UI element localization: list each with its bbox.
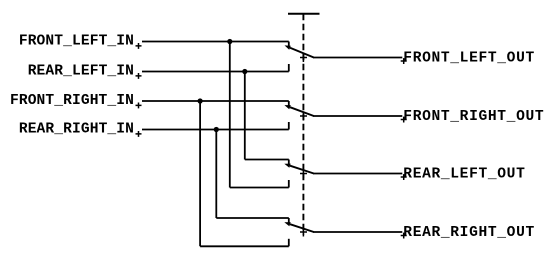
switch SW4 lever: [290, 224, 314, 232]
switch SW1 bottom contact: [288, 64, 290, 72]
switch SW3 lever arrowhead: [284, 164, 290, 168]
wire REAR_LEFT feed to SW3 top contact: [245, 159, 289, 161]
pin cross FRONT_RIGHT_IN: [136, 103, 142, 109]
junction FRONT_LEFT: [227, 39, 232, 44]
switch SW2 pivot tick: [300, 112, 307, 121]
switch SW3 bottom contact: [288, 180, 290, 188]
svg-text:REAR_RIGHT_OUT: REAR_RIGHT_OUT: [403, 225, 535, 241]
switch SW3 lever: [290, 166, 314, 174]
wire REAR_LEFT_OUT horizontal: [313, 173, 402, 175]
pin cross REAR_LEFT_OUT: [401, 174, 407, 180]
switch SW1 lever: [290, 48, 314, 58]
svg-text:FRONT_RIGHT_IN: FRONT_RIGHT_IN: [10, 93, 134, 109]
wire FRONT_LEFT vertical drop: [229, 42, 231, 188]
switch SW4 pivot tick: [300, 228, 307, 237]
switch SW1 pivot tick: [300, 53, 307, 62]
pin cross REAR_LEFT_IN: [136, 73, 142, 79]
wire FRONT_LEFT feed to SW3 bottom contact: [230, 187, 289, 189]
wire FRONT_RIGHT_IN horizontal: [142, 100, 289, 102]
wire REAR_LEFT_IN horizontal: [142, 71, 289, 73]
mechanical linkage bar (top T): [288, 13, 320, 15]
wire REAR_RIGHT vertical drop: [215, 130, 217, 219]
svg-text:REAR_LEFT_OUT: REAR_LEFT_OUT: [403, 167, 525, 183]
switch SW3 top contact: [288, 160, 290, 166]
switch SW1 lever arrowhead: [285, 45, 291, 49]
switch SW2 top contact: [288, 101, 290, 107]
svg-text:FRONT_LEFT_IN: FRONT_LEFT_IN: [19, 33, 134, 49]
junction REAR_RIGHT: [214, 127, 219, 132]
switch SW2 lever arrowhead: [284, 105, 290, 109]
svg-text:REAR_LEFT_IN: REAR_LEFT_IN: [28, 63, 134, 79]
wire REAR_LEFT vertical drop: [244, 72, 246, 160]
wire FRONT_LEFT_IN horizontal: [142, 41, 289, 43]
switch SW3 pivot tick: [300, 169, 307, 178]
wire REAR_RIGHT feed to SW4 top contact: [216, 217, 288, 219]
pin cross FRONT_LEFT_OUT: [401, 58, 407, 64]
switch SW4 top contact: [288, 218, 290, 224]
pin cross REAR_RIGHT_IN: [136, 131, 142, 137]
svg-text:FRONT_LEFT_OUT: FRONT_LEFT_OUT: [403, 51, 535, 67]
junction REAR_LEFT: [242, 69, 247, 74]
pin cross REAR_RIGHT_OUT: [401, 233, 407, 239]
mechanical linkage dashed line: [302, 14, 304, 235]
junction FRONT_RIGHT: [198, 98, 203, 103]
switch SW4 lever arrowhead: [284, 222, 290, 226]
switch SW2 bottom contact: [288, 122, 290, 130]
wire REAR_RIGHT_OUT horizontal: [313, 231, 402, 233]
wire FRONT_RIGHT feed to SW4 bottom contact: [200, 245, 289, 247]
switch SW2 lever: [290, 107, 314, 116]
switch SW4 bottom contact: [288, 239, 290, 247]
wire FRONT_RIGHT vertical drop: [199, 101, 201, 246]
wire FRONT_LEFT_OUT horizontal: [313, 57, 402, 59]
svg-text:FRONT_RIGHT_OUT: FRONT_RIGHT_OUT: [403, 109, 544, 125]
pin cross FRONT_RIGHT_OUT: [401, 117, 407, 123]
svg-text:REAR_RIGHT_IN: REAR_RIGHT_IN: [19, 121, 134, 137]
pin cross FRONT_LEFT_IN: [136, 43, 142, 49]
switch SW1 top contact: [288, 42, 290, 48]
wire REAR_RIGHT_IN horizontal: [142, 129, 289, 131]
wire FRONT_RIGHT_OUT horizontal: [313, 115, 402, 117]
